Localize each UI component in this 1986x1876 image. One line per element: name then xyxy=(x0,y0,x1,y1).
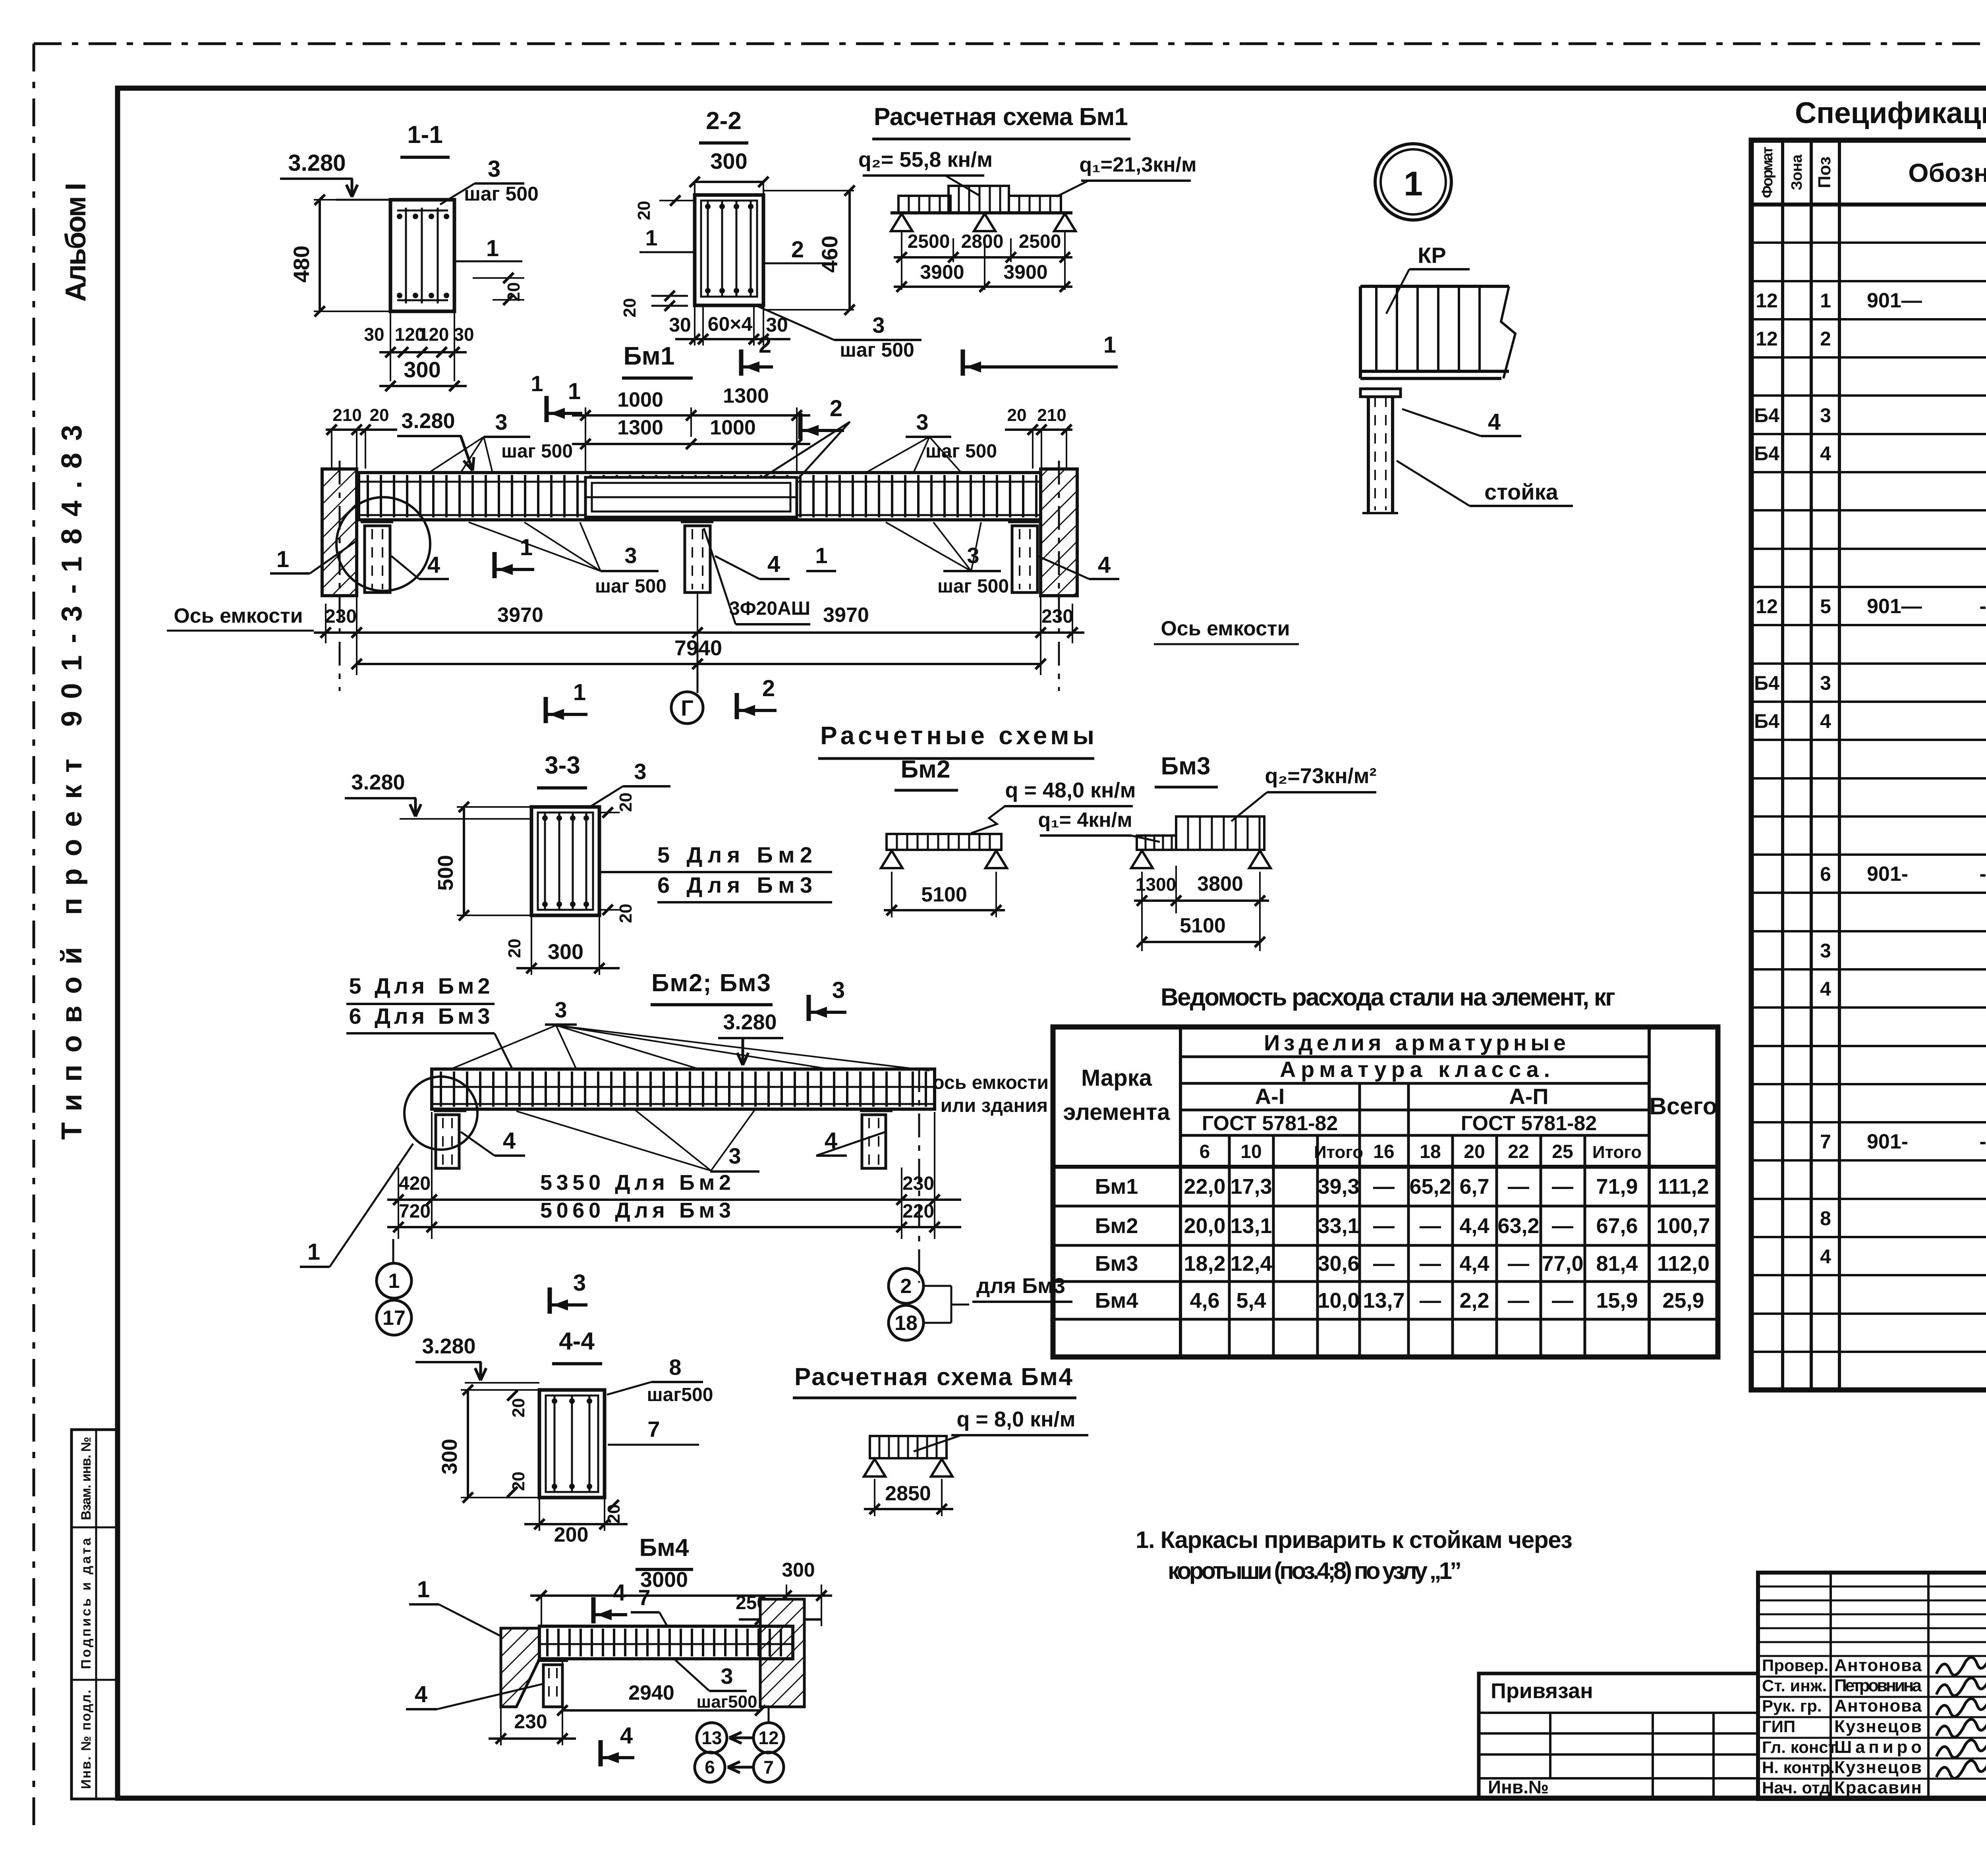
svg-text:—: — xyxy=(1552,1214,1573,1238)
svg-text:q₁= 4кн/м: q₁= 4кн/м xyxy=(1038,809,1132,832)
Бм1 mid reinforcement zone xyxy=(585,477,797,517)
svg-text:Зона: Зона xyxy=(1789,154,1805,190)
svg-text:300: 300 xyxy=(782,1559,815,1581)
svg-text:20: 20 xyxy=(509,1398,528,1418)
Бм2-Бм3 dim row 420 5350 230 xyxy=(398,1168,399,1239)
svg-text:4: 4 xyxy=(1820,978,1831,1000)
title block signatures squiggles xyxy=(1936,1657,1986,1675)
svg-text:20: 20 xyxy=(620,298,639,318)
Бм2-Бм3 beam xyxy=(432,1069,935,1109)
svg-text:5 Для Бм2: 5 Для Бм2 xyxy=(349,973,490,998)
steel table verticals xyxy=(1179,1027,1182,1357)
svg-text:ось емкости: ось емкости xyxy=(933,1072,1049,1093)
svg-text:901—: 901— xyxy=(1867,289,1922,312)
schema Бм1 supports xyxy=(891,214,912,231)
Бм4 column xyxy=(537,1660,568,1662)
svg-text:2500: 2500 xyxy=(1019,231,1061,252)
svg-text:7: 7 xyxy=(763,1757,774,1778)
svg-text:200: 200 xyxy=(554,1523,589,1546)
svg-text:ГОСТ 5781-82: ГОСТ 5781-82 xyxy=(1461,1112,1597,1135)
svg-text:Ось емкости: Ось емкости xyxy=(174,604,303,627)
svg-text:шаг 500: шаг 500 xyxy=(840,339,914,361)
steel table horizontals xyxy=(1180,1056,1649,1058)
svg-text:2: 2 xyxy=(762,676,775,701)
svg-text:6: 6 xyxy=(1200,1141,1210,1162)
svg-text:q₂= 55,8 кн/м: q₂= 55,8 кн/м xyxy=(858,148,993,172)
svg-text:18: 18 xyxy=(1420,1141,1441,1162)
svg-text:63,2: 63,2 xyxy=(1497,1214,1539,1238)
section 2-2 dims 30 60x4 30 xyxy=(702,305,704,345)
svg-text:111,2: 111,2 xyxy=(1658,1175,1709,1199)
Бм1 cut mark 2 bottom xyxy=(735,693,739,719)
svg-text:4: 4 xyxy=(503,1128,516,1154)
svg-text:13,1: 13,1 xyxy=(1230,1214,1272,1238)
svg-text:5: 5 xyxy=(1820,595,1831,618)
svg-text:901-: 901- xyxy=(1867,863,1908,886)
svg-text:3: 3 xyxy=(495,409,507,434)
svg-text:1: 1 xyxy=(276,546,289,572)
svg-text:3: 3 xyxy=(832,977,845,1003)
Бм4 circled 13-12 xyxy=(768,1708,770,1723)
section 1-1 dim 300 xyxy=(379,385,467,387)
svg-text:10: 10 xyxy=(1240,1141,1262,1162)
schema Бм1 dims 3900 3900 xyxy=(894,286,1072,288)
svg-text:Всего: Всего xyxy=(1650,1093,1717,1119)
svg-text:Б4: Б4 xyxy=(1754,672,1779,694)
svg-text:12,4: 12,4 xyxy=(1230,1252,1272,1276)
svg-text:1: 1 xyxy=(417,1577,430,1602)
svg-text:шаг 500: шаг 500 xyxy=(501,441,573,462)
svg-text:2: 2 xyxy=(830,396,842,421)
Бм4 dim 230 xyxy=(500,1708,502,1745)
svg-text:18: 18 xyxy=(894,1312,918,1335)
svg-text:4: 4 xyxy=(613,1580,626,1606)
svg-text:Поз: Поз xyxy=(1815,156,1834,188)
svg-text:Инв. № подл.: Инв. № подл. xyxy=(79,1690,94,1789)
svg-text:Б4: Б4 xyxy=(1754,404,1779,427)
svg-text:12: 12 xyxy=(1756,328,1778,350)
svg-text:Альбом I: Альбом I xyxy=(60,183,92,302)
svg-text:4: 4 xyxy=(427,552,440,578)
section 3-3 dim 20 bottom + 300 xyxy=(531,915,532,975)
svg-text:230: 230 xyxy=(325,606,357,627)
svg-text:—: — xyxy=(1508,1289,1529,1312)
svg-text:q₁=21,3кн/м: q₁=21,3кн/м xyxy=(1079,153,1196,176)
svg-text:71,9: 71,9 xyxy=(1596,1175,1638,1199)
schema Бм1 dims 2500 2800 2500 xyxy=(901,232,902,290)
svg-text:2500: 2500 xyxy=(908,231,950,252)
Бм1 right wall hatched xyxy=(1041,469,1077,596)
svg-text:112,0: 112,0 xyxy=(1657,1252,1710,1276)
svg-text:3: 3 xyxy=(573,1270,586,1296)
svg-text:4,4: 4,4 xyxy=(1459,1214,1489,1238)
svg-text:шаг500: шаг500 xyxy=(647,1384,713,1405)
svg-text:20: 20 xyxy=(509,1472,528,1491)
svg-text:3900: 3900 xyxy=(1003,261,1047,283)
section 4-4 stirrup box xyxy=(546,1395,598,1492)
svg-text:—: — xyxy=(1552,1289,1573,1312)
Бм1 cut mark 1 top xyxy=(545,396,549,422)
svg-text:7: 7 xyxy=(638,1585,650,1610)
section 1-1 dim 480 xyxy=(314,199,390,201)
svg-text:Формат: Формат xyxy=(1759,147,1776,198)
svg-text:13: 13 xyxy=(701,1727,722,1748)
svg-text:6 Для Бм3: 6 Для Бм3 xyxy=(349,1004,490,1029)
svg-text:—: — xyxy=(1508,1175,1529,1199)
svg-text:2940: 2940 xyxy=(628,1681,674,1704)
outer dash-dot border xyxy=(34,42,1986,45)
svg-text:300: 300 xyxy=(548,940,583,964)
Бм4 cut mark 4 top xyxy=(591,1597,596,1623)
svg-text:2800: 2800 xyxy=(961,231,1004,252)
svg-text:3-3: 3-3 xyxy=(545,752,580,779)
svg-text:Ведомость расхода стали на: Ведомость расхода стали на элемент, кг xyxy=(1161,984,1615,1011)
Бм1 cut mark 2 mid xyxy=(798,413,803,439)
svg-text:4: 4 xyxy=(767,551,780,577)
svg-text:q = 48,0 кн/м: q = 48,0 кн/м xyxy=(1005,778,1136,802)
section 1-1 rebars xyxy=(405,208,407,303)
Бм2-Бм3 axis circles 1 17 xyxy=(392,1239,394,1263)
svg-text:3: 3 xyxy=(1820,940,1831,962)
svg-text:2-2: 2-2 xyxy=(706,107,742,135)
svg-text:- КЖИ.103.01-03: - КЖИ.103.01-03 xyxy=(1979,1130,1986,1153)
svg-text:220: 220 xyxy=(902,1201,934,1222)
svg-text:901-: 901- xyxy=(1867,1130,1908,1153)
svg-text:4: 4 xyxy=(1820,1245,1831,1268)
svg-text:3800: 3800 xyxy=(1197,872,1243,896)
svg-text:Б4: Б4 xyxy=(1754,710,1779,732)
svg-text:901—: 901— xyxy=(1867,595,1922,618)
svg-text:Рук. гр.: Рук. гр. xyxy=(1762,1697,1822,1715)
svg-text:20: 20 xyxy=(504,282,524,302)
svg-text:4: 4 xyxy=(1488,409,1501,435)
svg-text:4: 4 xyxy=(1098,552,1111,578)
svg-text:720: 720 xyxy=(399,1201,431,1222)
svg-text:81,4: 81,4 xyxy=(1596,1252,1638,1276)
svg-text:стойка: стойка xyxy=(1484,479,1558,504)
scheme Бм2 supports xyxy=(881,851,902,868)
section 4-4 dim 200 + 20 xyxy=(539,1498,540,1531)
node detail cap plate xyxy=(1360,389,1401,397)
svg-text:Красавин: Красавин xyxy=(1834,1778,1922,1797)
svg-text:1: 1 xyxy=(388,1270,400,1293)
svg-text:1: 1 xyxy=(1103,332,1116,358)
svg-text:4: 4 xyxy=(415,1681,427,1707)
node detail column стойка xyxy=(1367,397,1370,513)
svg-text:500: 500 xyxy=(434,855,458,891)
Бм4 cut mark 4 bottom xyxy=(599,1740,603,1766)
svg-text:3.280: 3.280 xyxy=(351,770,405,794)
svg-text:2850: 2850 xyxy=(885,1482,931,1505)
svg-text:15,9: 15,9 xyxy=(1596,1289,1638,1312)
svg-text:5100: 5100 xyxy=(921,883,967,906)
section 4-4 dim 300 xyxy=(461,1389,539,1391)
svg-text:—: — xyxy=(1552,1175,1573,1199)
svg-text:Б4: Б4 xyxy=(1754,442,1779,465)
svg-text:4: 4 xyxy=(620,1723,633,1749)
section 4-4 concrete outline xyxy=(539,1390,605,1498)
svg-text:Итого: Итого xyxy=(1314,1143,1363,1162)
svg-text:Ось емкости: Ось емкости xyxy=(1161,617,1290,640)
svg-text:3.280: 3.280 xyxy=(288,150,346,176)
section 2-2 rebars xyxy=(707,201,709,297)
svg-text:Расчетные схемы: Расчетные схемы xyxy=(820,721,1094,750)
svg-text:Кузнецов: Кузнецов xyxy=(1834,1758,1922,1777)
svg-text:Бм3: Бм3 xyxy=(1095,1252,1138,1276)
scheme Бм2 load block xyxy=(887,834,1001,850)
svg-text:Н. контр.: Н. контр. xyxy=(1762,1758,1835,1777)
svg-text:1: 1 xyxy=(1404,165,1423,203)
svg-text:5100: 5100 xyxy=(1180,914,1226,937)
svg-text:—: — xyxy=(1373,1214,1395,1238)
title block signature table xyxy=(1758,1573,1986,1799)
schema Бм1 load blocks xyxy=(898,196,950,213)
section 1-1 concrete outline xyxy=(390,200,454,311)
svg-text:3: 3 xyxy=(554,997,567,1022)
svg-text:Итого: Итого xyxy=(1592,1143,1642,1162)
section 2-2 label 3 шаг 500 xyxy=(757,306,834,340)
Бм1 dims top middle row A xyxy=(585,407,586,473)
scheme Бм2 dim 5100 xyxy=(891,872,893,917)
Бм2-Бм3 dim row 720 5060 220 xyxy=(387,1226,961,1228)
svg-text:300: 300 xyxy=(404,357,440,382)
svg-text:—: — xyxy=(1373,1175,1395,1199)
svg-text:6,7: 6,7 xyxy=(1459,1175,1489,1199)
svg-text:210: 210 xyxy=(332,405,361,425)
svg-text:—: — xyxy=(1420,1289,1441,1312)
svg-text:39,3: 39,3 xyxy=(1318,1175,1359,1199)
svg-text:2: 2 xyxy=(759,332,771,358)
svg-text:230: 230 xyxy=(514,1710,547,1733)
svg-text:60×4: 60×4 xyxy=(708,313,753,335)
svg-text:1: 1 xyxy=(815,543,827,568)
svg-text:3: 3 xyxy=(488,156,500,182)
svg-text:25,9: 25,9 xyxy=(1662,1289,1704,1312)
section 1-1 label 1 xyxy=(454,261,522,262)
svg-text:1-1: 1-1 xyxy=(407,121,443,149)
svg-text:- КЖИ.103.01-02: - КЖИ.103.01-02 xyxy=(1979,863,1986,886)
svg-text:30: 30 xyxy=(454,324,474,345)
svg-text:12: 12 xyxy=(758,1727,779,1748)
svg-text:3.280: 3.280 xyxy=(723,1010,777,1034)
svg-text:1000: 1000 xyxy=(710,416,756,439)
Бм2-Бм3 columns xyxy=(434,1110,466,1112)
section 2-2 label 2 xyxy=(765,262,830,264)
svg-text:25: 25 xyxy=(1552,1141,1573,1162)
svg-text:3: 3 xyxy=(721,1664,733,1689)
svg-text:Бм4: Бм4 xyxy=(639,1534,689,1561)
svg-text:30: 30 xyxy=(364,324,384,345)
Бм1 left wall hatched xyxy=(322,469,357,596)
svg-text:3.280: 3.280 xyxy=(401,409,455,433)
svg-text:Бм1: Бм1 xyxy=(1095,1175,1138,1199)
spec table header xyxy=(1751,203,1986,207)
svg-text:20: 20 xyxy=(1464,1141,1485,1162)
svg-text:Кузнецов: Кузнецов xyxy=(1834,1717,1922,1736)
svg-text:шаг 500: шаг 500 xyxy=(464,183,539,205)
Бм1 dim 7940 xyxy=(357,663,1041,665)
svg-text:1300: 1300 xyxy=(1136,874,1176,895)
scheme Бм3 supports xyxy=(1131,851,1153,868)
svg-text:67,6: 67,6 xyxy=(1596,1214,1638,1238)
svg-text:18,2: 18,2 xyxy=(1184,1252,1225,1276)
svg-text:2: 2 xyxy=(1820,328,1831,350)
steel table frame xyxy=(1053,1027,1718,1357)
svg-text:Расчетная схема Бм4: Расчетная схема Бм4 xyxy=(794,1363,1073,1391)
svg-text:2,2: 2,2 xyxy=(1459,1289,1489,1312)
svg-text:2: 2 xyxy=(900,1275,912,1298)
svg-text:20: 20 xyxy=(505,939,524,958)
Бм1 cut mark 1 top right xyxy=(961,349,965,376)
svg-text:77,0: 77,0 xyxy=(1542,1252,1583,1276)
Бм1 label 2 leaders xyxy=(798,422,850,479)
svg-text:20: 20 xyxy=(1007,405,1027,425)
Бм4 right wall xyxy=(760,1599,804,1707)
svg-text:6 Для Бм3: 6 Для Бм3 xyxy=(657,872,812,897)
svg-text:1300: 1300 xyxy=(723,384,769,407)
svg-text:Бм4: Бм4 xyxy=(1095,1289,1138,1312)
Бм2-Бм3 node circle xyxy=(404,1077,477,1150)
svg-text:Инв.№: Инв.№ xyxy=(1488,1777,1549,1797)
svg-text:7: 7 xyxy=(1820,1131,1831,1153)
svg-text:230: 230 xyxy=(902,1173,934,1194)
svg-text:22: 22 xyxy=(1508,1141,1529,1162)
Бм1 cut mark 1 below beam xyxy=(493,552,497,578)
section 2-2 stirrup box xyxy=(701,201,757,297)
svg-text:460: 460 xyxy=(817,235,842,272)
section 1-1 dims 30 120 120 30 xyxy=(390,311,391,381)
section 3-3 stirrup box xyxy=(538,813,593,910)
section 3-3 rebars xyxy=(544,813,546,910)
svg-text:3970: 3970 xyxy=(823,604,869,627)
svg-text:13,7: 13,7 xyxy=(1363,1289,1404,1312)
svg-text:1: 1 xyxy=(520,535,533,560)
svg-text:4-4: 4-4 xyxy=(559,1328,595,1355)
svg-text:3: 3 xyxy=(634,759,646,784)
section 4-4 rebars xyxy=(554,1395,556,1492)
Бм4 left support pier xyxy=(501,1628,539,1707)
schema Бм4 load block xyxy=(870,1436,947,1458)
svg-text:120: 120 xyxy=(419,324,449,345)
svg-text:1: 1 xyxy=(645,225,657,250)
svg-text:3Ф20АШ: 3Ф20АШ xyxy=(729,598,810,619)
section 1-1 dim 20 xyxy=(473,277,524,279)
spec table verticals xyxy=(1781,140,1784,1390)
svg-text:1: 1 xyxy=(307,1239,320,1265)
left stamp column xyxy=(71,1430,118,1799)
Бм2-Бм3 cut mark 3 right xyxy=(807,995,811,1021)
svg-text:17: 17 xyxy=(383,1307,406,1330)
svg-text:Г: Г xyxy=(681,695,694,720)
Бм1 beam with stirrups xyxy=(359,473,1041,520)
Бм1 columns xyxy=(361,521,393,523)
svg-text:Обозначение: Обозначение xyxy=(1908,158,1986,187)
svg-text:6: 6 xyxy=(1820,863,1831,885)
svg-text:210: 210 xyxy=(1037,405,1066,425)
svg-text:Арматура класса.: Арматура класса. xyxy=(1280,1057,1550,1082)
svg-text:30,6: 30,6 xyxy=(1318,1252,1359,1276)
svg-text:3970: 3970 xyxy=(497,604,543,627)
svg-text:ГОСТ 5781-82: ГОСТ 5781-82 xyxy=(1202,1112,1338,1135)
scheme Бм3 load blocks xyxy=(1137,836,1176,850)
svg-text:Взам. инв. №: Взам. инв. № xyxy=(79,1437,94,1520)
svg-text:12: 12 xyxy=(1756,595,1778,618)
svg-text:шаг500: шаг500 xyxy=(697,1692,757,1712)
svg-text:—: — xyxy=(1420,1214,1441,1238)
svg-text:6: 6 xyxy=(705,1757,715,1778)
svg-text:4,6: 4,6 xyxy=(1190,1289,1219,1312)
svg-text:300: 300 xyxy=(438,1439,462,1475)
svg-text:10,0: 10,0 xyxy=(1318,1289,1359,1312)
svg-text:Нач. отд: Нач. отд xyxy=(1762,1778,1830,1797)
section 2-2 dim 460 xyxy=(763,190,854,191)
svg-text:30: 30 xyxy=(669,314,691,336)
svg-text:шаг 500: шаг 500 xyxy=(595,576,667,597)
svg-text:420: 420 xyxy=(399,1173,431,1194)
svg-text:3: 3 xyxy=(728,1143,741,1168)
svg-text:элемента: элемента xyxy=(1063,1099,1170,1125)
svg-text:Гл. конст.: Гл. конст. xyxy=(1762,1738,1839,1756)
svg-text:—: — xyxy=(1508,1252,1529,1276)
node detail cage xyxy=(1360,285,1509,288)
node detail circle 1 xyxy=(1375,144,1451,220)
Бм4 beam xyxy=(539,1626,793,1659)
svg-text:Провер.: Провер. xyxy=(1762,1656,1828,1675)
svg-text:20: 20 xyxy=(616,904,636,923)
Бм1 axis circle Г xyxy=(697,643,699,693)
section 2-2 concrete outline xyxy=(695,195,763,305)
svg-text:3: 3 xyxy=(872,313,885,338)
svg-text:или здания: или здания xyxy=(941,1095,1048,1116)
svg-text:Спецификация монолитных: Спецификация монолитных балок xyxy=(1795,96,1986,129)
Бм1 dims top middle row B xyxy=(572,443,810,445)
svg-text:Бм2: Бм2 xyxy=(901,756,950,783)
schema Бм4 supports xyxy=(864,1459,885,1476)
svg-text:Петровнина: Петровнина xyxy=(1834,1676,1922,1695)
svg-text:—: — xyxy=(1373,1252,1395,1276)
svg-text:Марка: Марка xyxy=(1081,1065,1152,1091)
scheme Бм3 dim 5100 xyxy=(1142,941,1260,943)
section 3-3 concrete outline xyxy=(531,807,599,915)
svg-text:3: 3 xyxy=(916,409,928,434)
svg-text:8: 8 xyxy=(669,1355,681,1380)
Бм1 dim row 3970 3970 xyxy=(356,596,357,675)
svg-text:коротыши (поз.4;8) по узлу: коротыши (поз.4;8) по узлу „1” xyxy=(1168,1558,1462,1584)
svg-text:1000: 1000 xyxy=(617,388,663,411)
svg-text:1: 1 xyxy=(568,378,581,404)
svg-text:- КЖИ.103.01-01: - КЖИ.103.01-01 xyxy=(1979,595,1986,618)
Бм4 circled 6-7 xyxy=(695,1752,725,1782)
svg-text:2: 2 xyxy=(791,237,804,262)
svg-text:3: 3 xyxy=(1820,404,1831,427)
svg-text:3.280: 3.280 xyxy=(422,1334,475,1358)
svg-text:—: — xyxy=(1420,1252,1441,1276)
Бм2-Бм3 label для Бм3 xyxy=(924,1285,951,1287)
svg-text:ГИП: ГИП xyxy=(1762,1717,1795,1736)
svg-text:1: 1 xyxy=(531,371,543,396)
svg-text:20,0: 20,0 xyxy=(1184,1214,1225,1238)
svg-text:q = 8,0 кн/м: q = 8,0 кн/м xyxy=(956,1407,1075,1431)
svg-text:А-П: А-П xyxy=(1509,1084,1548,1109)
svg-text:480: 480 xyxy=(289,245,314,282)
svg-text:7: 7 xyxy=(647,1417,660,1442)
Бм4 dim 2940 xyxy=(562,1661,563,1715)
svg-text:1: 1 xyxy=(486,235,499,261)
svg-text:8: 8 xyxy=(1820,1207,1831,1229)
svg-text:65,2: 65,2 xyxy=(1409,1175,1451,1199)
svg-text:20: 20 xyxy=(616,793,636,812)
svg-text:12: 12 xyxy=(1756,290,1778,312)
